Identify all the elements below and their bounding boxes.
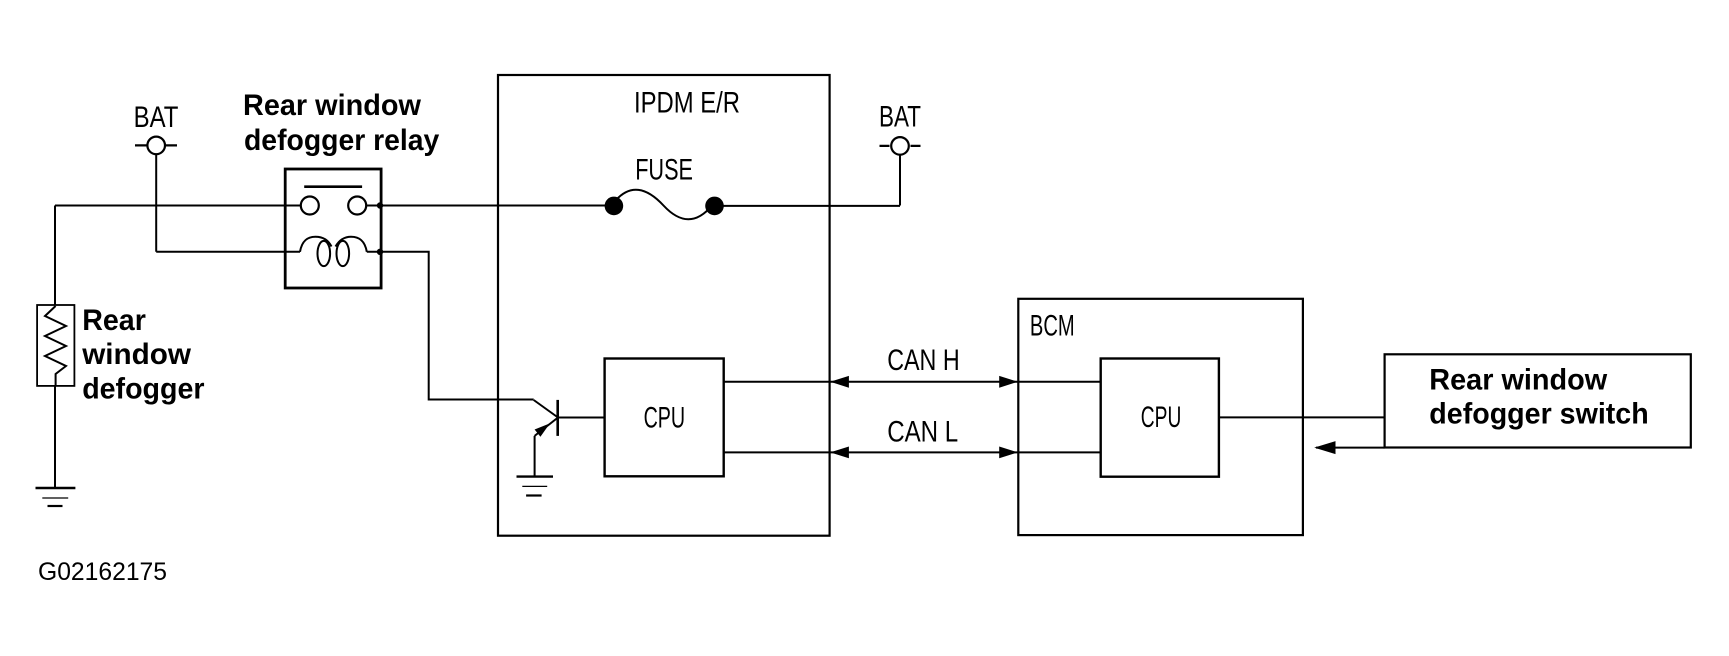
CPU U1 box (IPDM): [605, 359, 724, 477]
svg-text:defogger: defogger: [82, 373, 205, 406]
fuse F1 left dot: [605, 197, 624, 216]
svg-text:Rear window: Rear window: [1429, 363, 1608, 396]
junction dot relay coil output: [377, 249, 383, 255]
svg-text:defogger relay: defogger relay: [244, 124, 440, 157]
wire: battery bus left segment (corner to relay contact 1): [55, 205, 301, 207]
arrowhead CAN L left: [830, 447, 849, 459]
arrowhead CAN H left: [830, 376, 849, 388]
transistor Q1 emitter vertical wire: [534, 436, 536, 477]
svg-text:BCM: BCM: [1030, 310, 1075, 343]
svg-text:CPU: CPU: [644, 402, 686, 435]
wire: CAN L line: [724, 451, 1101, 453]
arrowhead CAN L right: [999, 447, 1018, 459]
svg-text:G02162175: G02162175: [38, 558, 167, 586]
wire: relay coil output to IPDM: [367, 252, 534, 400]
svg-text:window: window: [81, 338, 191, 371]
arrowhead switch output: [1314, 441, 1335, 454]
transistor Q1 base wire to CPU: [558, 417, 605, 419]
CPU U2 box (BCM): [1101, 359, 1219, 477]
resistor R1 (rear window defogger) box: [37, 305, 74, 386]
relay contact circle 1: [301, 197, 319, 215]
ground IPDM: [517, 477, 554, 496]
BCM box: [1018, 299, 1303, 535]
transistor Q1 collector diagonal: [534, 400, 558, 418]
wire: switch output arrow line: [1316, 447, 1385, 449]
transistor Q1 emitter diagonal: [535, 418, 558, 436]
fuse F1 S-curve: [616, 190, 712, 220]
svg-text:CPU: CPU: [1141, 401, 1182, 434]
transistor Q1 emitter arrowhead: [535, 425, 548, 436]
wire: BAT right drop: [899, 155, 901, 206]
svg-text:FUSE: FUSE: [635, 153, 693, 186]
relay contact circle 2: [348, 197, 366, 215]
svg-text:IPDM E/R: IPDM E/R: [634, 86, 740, 119]
ground left: [36, 488, 76, 506]
svg-text:BAT: BAT: [879, 101, 921, 134]
svg-text:Rear: Rear: [82, 304, 146, 337]
wire: battery bus middle segment (relay contact 2 to fuse left dot): [366, 205, 614, 207]
wire: BCM CPU to defogger switch: [1219, 416, 1385, 418]
wire: CAN H line: [724, 381, 1101, 383]
relay contact bar: [304, 185, 362, 188]
svg-text:defogger switch: defogger switch: [1429, 398, 1648, 431]
junction dot relay contact output: [377, 202, 383, 208]
arrowhead CAN H right: [999, 376, 1018, 388]
IPDM E/R box: [498, 75, 830, 536]
svg-text:CAN H: CAN H: [887, 344, 960, 377]
rear window defogger switch box: [1385, 354, 1691, 447]
svg-text:BAT: BAT: [134, 101, 179, 134]
wire: relay coil feed from BAT: [156, 251, 300, 253]
svg-text:CAN L: CAN L: [887, 415, 958, 448]
wire: left drop to rear window defogger: [54, 206, 56, 306]
terminal BAT right: [880, 137, 921, 155]
resistor R1 zigzag: [45, 306, 66, 385]
wire: BAT left drop: [155, 154, 157, 252]
fuse F1 right dot: [705, 197, 724, 216]
terminal BAT left: [135, 137, 177, 155]
transistor Q1 base bar: [556, 400, 559, 436]
svg-text:Rear window: Rear window: [243, 89, 422, 122]
wire: battery bus right segment (fuse right dot to BAT-right corner): [715, 205, 901, 207]
relay coil: [300, 237, 367, 266]
relay K1 box: [285, 169, 381, 288]
wire: defogger resistor to ground: [54, 386, 56, 488]
